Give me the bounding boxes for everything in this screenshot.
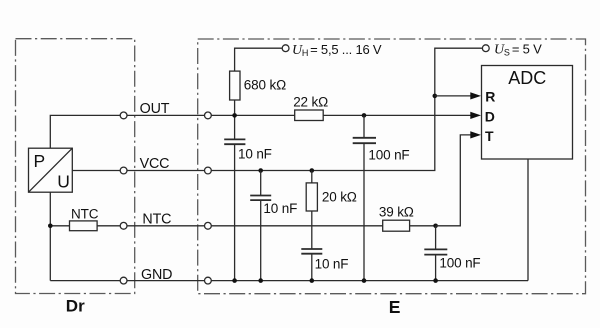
svg-text:UH= 5,5 ... 16 V: UH= 5,5 ... 16 V — [292, 42, 382, 58]
terminal US supply — [482, 45, 489, 52]
wire NTC interconnect — [127, 225, 204, 227]
svg-text:E: E — [389, 297, 401, 317]
svg-text:680 kΩ: 680 kΩ — [244, 78, 286, 93]
terminal GND (E) — [205, 277, 212, 284]
node junction GND/C1 — [232, 278, 237, 283]
wire OUT run in E — [211, 114, 294, 116]
wire OUT interconnect — [127, 114, 204, 116]
wire transducer bottom to NTC node — [49, 192, 51, 226]
svg-text:U: U — [57, 171, 70, 191]
node junction 39k/100n/T — [433, 224, 438, 229]
wire 22k to D arrow — [323, 114, 472, 116]
resistor R2 22k — [295, 110, 324, 121]
wire NTC run in E — [211, 225, 382, 227]
terminal NTC (Dr) — [120, 222, 127, 229]
wire 680k to OUT line — [234, 100, 236, 115]
svg-text:NTC: NTC — [142, 211, 171, 227]
wire UH to 680k branch — [235, 48, 283, 71]
svg-text:20 kΩ: 20 kΩ — [322, 190, 357, 205]
svg-text:D: D — [485, 108, 495, 124]
arrow into R — [470, 92, 481, 99]
wire NTC node down to GND — [49, 226, 51, 281]
wire node to cap C5 — [435, 226, 437, 250]
wire OUT from transducer top — [50, 115, 120, 148]
svg-text:10 nF: 10 nF — [238, 147, 272, 162]
terminal GND (Dr) — [120, 277, 127, 284]
wire GND run in Dr — [50, 280, 120, 282]
capacitor C5 100nF plates — [424, 248, 447, 250]
wire C1 to GND — [234, 144, 236, 280]
resistor NTC (thermistor) — [70, 221, 98, 231]
terminal UH supply — [282, 45, 289, 52]
wire VCC to 20k — [311, 171, 313, 183]
node junction GND/C3 — [258, 278, 263, 283]
wire 20k to cap C4 (crosses NTC) — [311, 211, 313, 249]
wire VCC from transducer right — [72, 170, 120, 172]
wire VCC interconnect — [127, 170, 204, 172]
node junction GND/C5 — [433, 278, 438, 283]
svg-text:10 nF: 10 nF — [263, 201, 297, 216]
arrow into D — [470, 112, 481, 119]
transducer U1 P/U box — [29, 148, 73, 192]
svg-text:100 nF: 100 nF — [439, 256, 480, 271]
svg-text:10 nF: 10 nF — [315, 256, 349, 271]
wire ADC bottom to GND — [527, 159, 529, 281]
node junction NTC dr — [48, 224, 53, 229]
node junction GND/C4 — [310, 278, 315, 283]
node junction US/R/VCC — [433, 94, 438, 99]
node junction VCC/C3 — [258, 168, 263, 173]
wire junction to cap C2 — [363, 115, 365, 137]
svg-text:P: P — [34, 151, 46, 171]
svg-text:NTC: NTC — [71, 206, 99, 221]
svg-text:22 kΩ: 22 kΩ — [293, 95, 328, 110]
terminal NTC (E) — [205, 222, 212, 229]
capacitor C3 10nF plates — [250, 195, 271, 197]
svg-text:R: R — [485, 88, 495, 104]
wire OUT line to cap C1 — [234, 115, 236, 139]
capacitor C2 100nF plates — [353, 137, 376, 139]
resistor R1 680k — [230, 71, 240, 100]
svg-text:OUT: OUT — [140, 101, 170, 117]
sensor enclosure Dr (dash-dot border) — [16, 39, 135, 294]
wire NTC node to resistor — [50, 225, 69, 227]
wire C2 to GND (crosses VCC) — [363, 143, 365, 280]
wire C5 to GND — [435, 255, 437, 281]
node junction GND/C2 — [362, 278, 367, 283]
resistor R3 20k — [306, 183, 317, 211]
terminal OUT (E) — [205, 112, 212, 119]
wire C4 to GND — [311, 254, 313, 281]
node junction VCC/20k — [310, 168, 315, 173]
wire R arrow line — [435, 95, 472, 97]
node junction OUT/680k — [232, 113, 237, 118]
wire VCC run in E to corner up — [211, 96, 434, 171]
svg-text:VCC: VCC — [140, 156, 170, 172]
terminal VCC (Dr) — [120, 167, 127, 174]
wire resistor to terminal — [97, 225, 120, 227]
node junction OUT/100n — [362, 113, 367, 118]
ECU enclosure E (dash-dot border) — [198, 39, 586, 294]
wire VCC to cap C3 — [260, 171, 262, 196]
capacitor C1 10nF plates — [224, 138, 245, 140]
wire GND interconnect — [127, 280, 204, 282]
wire C3 to GND — [260, 200, 262, 281]
resistor R4 39k — [383, 220, 410, 231]
svg-text:Dr: Dr — [66, 296, 85, 315]
svg-text:100 nF: 100 nF — [368, 148, 409, 163]
svg-text:GND: GND — [141, 267, 172, 283]
wire node to T input — [436, 135, 472, 226]
arrow into T — [470, 131, 481, 138]
capacitor C4 10nF plates — [301, 248, 322, 250]
op-amp U2 ADC box — [482, 66, 573, 160]
svg-text:ADC: ADC — [508, 68, 546, 88]
wire GND run in E — [211, 280, 528, 282]
terminal OUT (Dr) — [120, 112, 127, 119]
svg-text:39 kΩ: 39 kΩ — [379, 205, 414, 220]
svg-text:T: T — [485, 128, 494, 144]
wire 39k to node — [410, 225, 436, 227]
terminal VCC (E) — [205, 167, 212, 174]
wire US to R node — [435, 48, 483, 96]
svg-text:US= 5 V: US= 5 V — [494, 42, 542, 58]
